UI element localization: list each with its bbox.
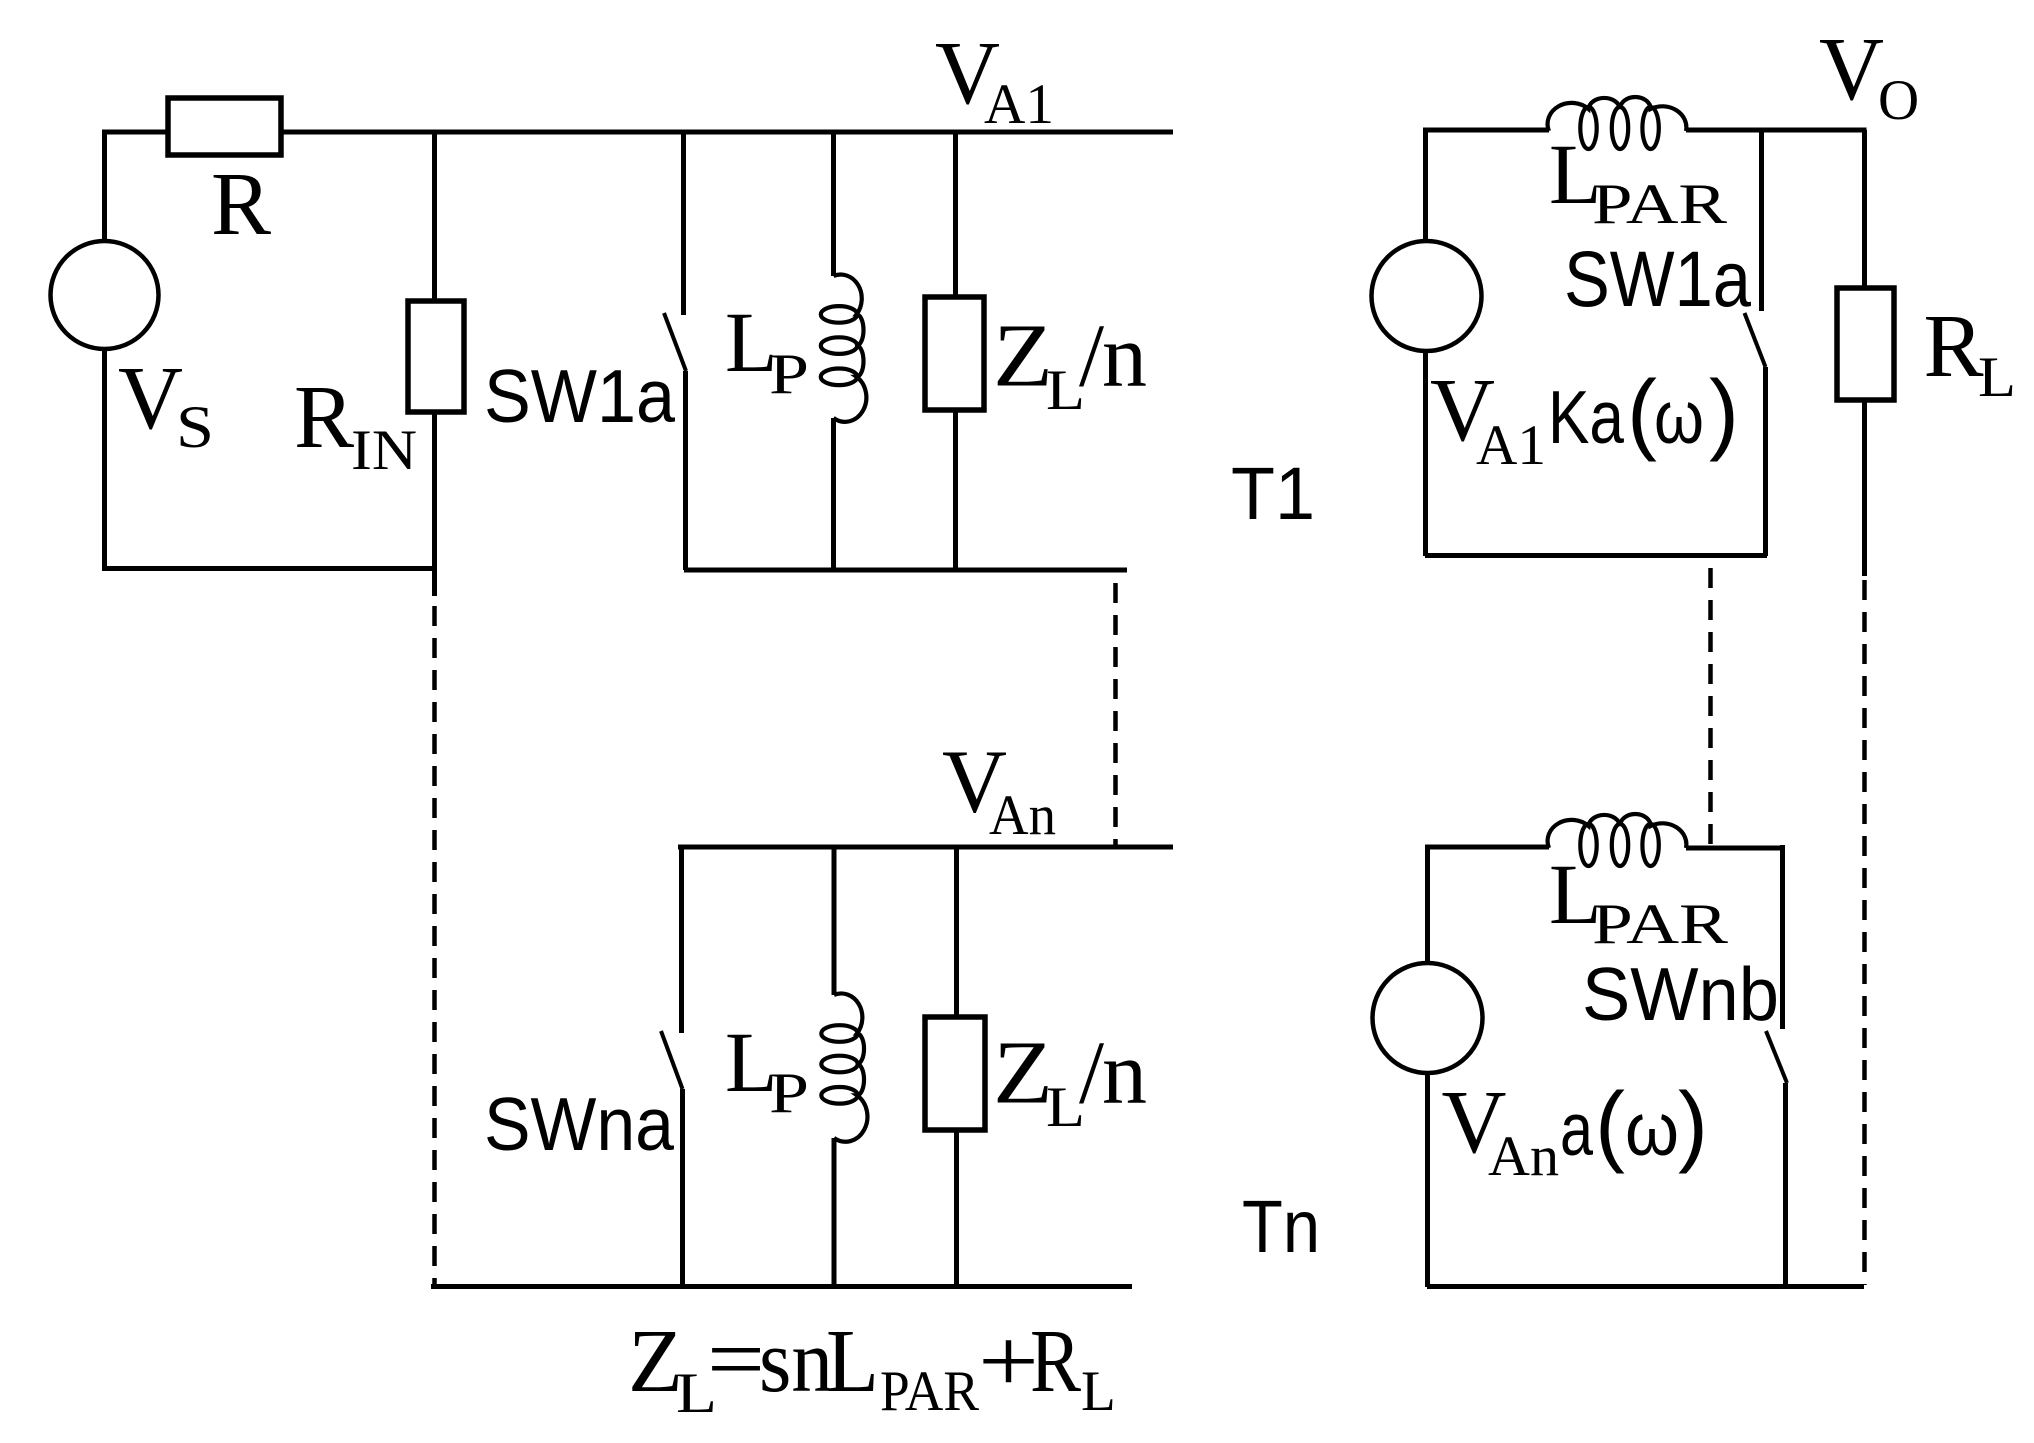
svg-text:): ) — [1709, 363, 1739, 463]
switch SW1a bottom lead — [683, 371, 688, 570]
svg-text:P: P — [769, 1062, 809, 1125]
svg-text:a: a — [1560, 1087, 1593, 1171]
wire bottom rail middle section — [684, 568, 1127, 573]
inductor LP — [834, 275, 867, 422]
svg-text:Tn: Tn — [1242, 1185, 1320, 1268]
resistor RIN — [408, 301, 464, 412]
svg-text:R: R — [294, 368, 354, 467]
svg-text:/: / — [1079, 1024, 1104, 1123]
switch SWnb blade — [1766, 1031, 1787, 1083]
svg-text:(: ( — [1627, 363, 1657, 463]
inductor LP Tn — [834, 993, 867, 1141]
svg-text:=: = — [707, 1310, 765, 1409]
svg-text:R: R — [1924, 297, 1984, 396]
wire Tnb bottom rail — [1427, 1284, 1864, 1289]
svg-text:P: P — [769, 343, 809, 406]
switch SW1a blade — [664, 313, 686, 371]
svg-text:V: V — [1819, 20, 1884, 119]
svg-text:ω: ω — [1654, 375, 1704, 459]
wire RIN top lead — [432, 132, 437, 301]
wire RIN bottom lead — [432, 412, 437, 596]
svg-text:O: O — [1878, 69, 1919, 132]
switch SWna blade — [661, 1031, 683, 1089]
svg-text:PAR: PAR — [1592, 173, 1727, 236]
switch SW1a-T1 bottom lead — [1763, 367, 1768, 556]
svg-text:ω: ω — [1625, 1087, 1679, 1171]
svg-text:L: L — [826, 1312, 879, 1411]
svg-text:An: An — [989, 784, 1056, 847]
wire Tn top rail — [678, 845, 1173, 850]
wire LP bottom lead — [831, 418, 836, 570]
wire bottom rail of VS loop — [102, 566, 437, 571]
switch SWnb bottom lead — [1783, 1083, 1788, 1287]
wire RL top lead — [1862, 130, 1867, 288]
svg-text:(: ( — [1595, 1075, 1625, 1175]
wire Tnb top rail left of LPAR — [1425, 845, 1549, 850]
svg-text:sn: sn — [759, 1312, 833, 1411]
svg-text:R: R — [211, 155, 271, 254]
svg-text:An: An — [1488, 1125, 1559, 1188]
svg-text:S: S — [176, 394, 214, 460]
wire ZLn-Tn top lead — [954, 847, 959, 1017]
svg-text:SW1a: SW1a — [484, 354, 675, 438]
svg-text:SWnb: SWnb — [1582, 952, 1779, 1036]
svg-text:PAR: PAR — [1592, 893, 1728, 956]
switch SWna top lead — [679, 847, 684, 1033]
voltage source VAn-a(w) — [1373, 963, 1483, 1073]
wire ZL/n bottom lead — [953, 410, 958, 570]
svg-text:Z: Z — [993, 1024, 1053, 1123]
svg-text:A1: A1 — [984, 73, 1054, 136]
svg-text:Z: Z — [993, 307, 1053, 406]
resistor R — [168, 98, 281, 155]
switch SW1a top lead — [681, 132, 686, 315]
voltage source VA1Ka(w) — [1372, 241, 1482, 351]
svg-text:SWna: SWna — [484, 1082, 674, 1166]
voltage source VS — [51, 241, 159, 349]
svg-text:A1: A1 — [1476, 414, 1546, 477]
resistor RL — [1837, 288, 1894, 400]
inductor LPAR Tnb — [1548, 814, 1687, 848]
wire LP-Tn bottom lead — [832, 1138, 837, 1286]
svg-text:V: V — [118, 349, 183, 448]
svg-text:R: R — [1030, 1312, 1081, 1411]
wire top rail from VS to node VA1 — [102, 130, 1173, 135]
switch SW1a-T1 blade — [1745, 313, 1766, 367]
svg-text:n: n — [1102, 1024, 1147, 1123]
wire T1 left vertical below source — [1423, 351, 1428, 556]
wire Tnb top rail right of LPAR — [1686, 846, 1783, 851]
dashed wire from RIN node down to Tn bottom rail — [432, 606, 437, 1287]
wire ZLn-Tn bottom lead — [954, 1130, 959, 1286]
inductor LPAR T1 — [1548, 97, 1687, 131]
wire left vertical above VS — [102, 132, 107, 241]
svg-text:L: L — [1978, 346, 2016, 409]
wire LP-Tn top lead — [832, 847, 837, 995]
wire ZL/n top lead — [953, 132, 958, 297]
wire Tn bottom rail — [431, 1284, 1132, 1289]
svg-text:IN: IN — [351, 419, 417, 482]
svg-text:): ) — [1678, 1075, 1708, 1175]
dashed wire from T1 rail down to Tnb top rail — [1708, 568, 1713, 845]
wire Tnb left vertical below source — [1425, 1073, 1430, 1287]
svg-text:Z: Z — [628, 1312, 683, 1411]
switch SWnb top lead — [1780, 845, 1785, 1029]
resistor ZL/n — [925, 297, 984, 410]
wire T1 top rail right of LPAR — [1686, 128, 1867, 133]
svg-text:L: L — [1081, 1360, 1116, 1423]
svg-text:/: / — [1079, 307, 1104, 406]
wire T1 top rail left of LPAR — [1423, 128, 1549, 133]
resistor ZL/n Tn — [925, 1017, 985, 1130]
wire T1 left vertical above source — [1423, 130, 1428, 241]
svg-text:SW1a: SW1a — [1564, 234, 1751, 323]
dashed wire from RL down to Tnb bottom rail — [1862, 580, 1867, 1285]
wire LP top lead — [831, 132, 836, 276]
wire RL bottom lead — [1862, 400, 1867, 576]
wire T1 bottom rail — [1425, 553, 1767, 558]
svg-text:Ka: Ka — [1548, 375, 1624, 459]
wire left vertical below VS — [102, 349, 107, 571]
wire Tnb left vertical above source — [1425, 847, 1430, 963]
switch SW1a-T1 top lead — [1759, 130, 1764, 311]
dashed wire from middle rail down to Tn top rail — [1113, 583, 1118, 845]
svg-text:T1: T1 — [1231, 452, 1315, 535]
svg-text:n: n — [1102, 307, 1147, 406]
svg-text:PAR: PAR — [880, 1360, 979, 1423]
switch SWna bottom lead — [680, 1089, 685, 1286]
